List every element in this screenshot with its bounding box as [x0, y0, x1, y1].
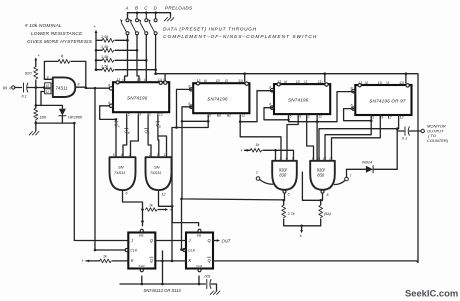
svg-text:11: 11: [46, 90, 50, 94]
svg-text:GIVES MORE HYSTERESIS: GIVES MORE HYSTERESIS: [27, 39, 93, 44]
svg-text:10: 10: [296, 80, 300, 84]
wire IC4 pin5 to gate U9: [325, 121, 371, 160]
svg-text:12: 12: [323, 156, 327, 160]
svg-text:6: 6: [288, 193, 290, 197]
switch A (preload): [127, 13, 129, 19]
svg-text:2: 2: [255, 171, 258, 175]
gate U6 SN74S11 (AND, zero detect A): [110, 157, 136, 190]
svg-text:C: C: [144, 6, 148, 11]
svg-text:2: 2: [389, 115, 392, 119]
svg-text:|3: |3: [144, 78, 147, 82]
wire feed from IC2 pin6 cascade to U8 node: [182, 121, 284, 200]
gate U7 SN74S11 (AND, zero detect B): [146, 157, 172, 190]
svg-text:74S11: 74S11: [114, 170, 125, 175]
svg-text:IN914: IN914: [362, 161, 372, 165]
svg-text:2.7k: 2.7k: [287, 212, 296, 216]
svg-text:13: 13: [164, 153, 168, 157]
svg-text:D: D: [159, 124, 161, 128]
svg-text:1.5k: 1.5k: [101, 44, 109, 49]
diode HP2800: [59, 109, 66, 116]
svg-text:8: 8: [327, 193, 329, 197]
wire switch A to IC1 pin 4: [125, 35, 128, 81]
svg-text:10: 10: [317, 156, 321, 160]
svg-text:2: 2: [279, 156, 282, 160]
svg-text:IN: IN: [3, 85, 8, 90]
flip-flop U11 (SN74S112) second: [186, 233, 213, 269]
svg-text:5: 5: [128, 113, 130, 117]
svg-text:SN: SN: [154, 165, 160, 170]
wire monitor vertical: [396, 129, 398, 170]
wire switch C to IC1 pin 3: [145, 35, 147, 81]
svg-text:9: 9: [299, 115, 301, 119]
wire U8 output node: [283, 194, 286, 201]
svg-text:COMPLEMENT–OF–NINES–COMPLEMENT: COMPLEMENT–OF–NINES–COMPLEMENT SWITCH: [163, 34, 317, 40]
IC U3 SN74196 (decade counter 2): [193, 83, 249, 113]
svg-text:11): 11): [399, 81, 404, 85]
svg-text:12: 12: [159, 113, 163, 117]
svg-text:180: 180: [40, 115, 47, 120]
capacitor 0.1 monitor coupling: [397, 130, 404, 132]
svg-text:*: *: [300, 235, 302, 241]
wire IC3 pin12 to gate U9: [316, 115, 318, 160]
svg-text:|4: |4: [204, 79, 207, 83]
flip-flop U10 (SN74S112) first: [128, 233, 155, 269]
svg-text:CLK: CLK: [188, 249, 196, 253]
svg-text:#: #: [61, 54, 64, 59]
svg-text:1.5k: 1.5k: [101, 34, 109, 39]
svg-text:SN74S112 OR S113: SN74S112 OR S113: [144, 288, 182, 293]
wire J-feed long vertical: [74, 123, 128, 240]
wire IC1 pin12 to gate U7: [158, 115, 167, 157]
svg-text:CLR: CLR: [196, 264, 203, 268]
wire switch B to IC1 pin 10: [137, 35, 139, 81]
svg-text:9: 9: [381, 115, 383, 119]
wire decoder common to supply: [284, 225, 321, 227]
wire FF2 Q to OUT: [213, 240, 217, 242]
svg-text:12: 12: [318, 115, 322, 119]
wire IC4 pin9 to gate U9: [332, 115, 381, 160]
svg-text:13: 13: [329, 156, 333, 160]
svg-text:4: 4: [121, 153, 123, 157]
wire FF1 Qbar to FF2 K: [155, 260, 186, 262]
node diode feed: [35, 88, 37, 106]
svg-text:|4: |4: [284, 80, 287, 84]
ground for preload bus: [164, 18, 174, 21]
terminal scope A: [256, 177, 260, 181]
switch B (preload): [136, 13, 138, 19]
wire FF2 CLK feed: [182, 199, 185, 250]
svg-text:12: 12: [162, 193, 166, 197]
svg-text:LOWER RESISTANCE: LOWER RESISTANCE: [31, 31, 83, 36]
svg-text:|3: |3: [304, 80, 307, 84]
svg-text:DATA (PRESET) INPUT THROUGH: DATA (PRESET) INPUT THROUGH: [163, 27, 257, 33]
terminal scope B: [345, 177, 349, 181]
wire IC3 pin6 loop: [264, 108, 289, 120]
svg-text:B: B: [135, 6, 138, 11]
svg-text:+: +: [240, 148, 243, 153]
svg-text:OUT: OUT: [222, 238, 231, 243]
svg-text:830: 830: [279, 173, 287, 178]
svg-text:0: 0: [9, 86, 11, 90]
IC U5 SN74196 OR 97 (decade counter 4): [355, 85, 411, 115]
svg-text:+: +: [38, 53, 41, 58]
svg-text:5: 5: [209, 114, 211, 118]
svg-text:1.5k: 1.5k: [101, 64, 109, 69]
wire: preload common bus to ground: [128, 13, 171, 19]
svg-text:D: D: [154, 6, 158, 11]
gate U8 930/830 (NAND decode A): [272, 161, 297, 190]
wire IC3 pin2 to gate U9: [307, 115, 314, 160]
stub bus to IC4 pin 1: [405, 74, 407, 83]
wire IC4 pin12 monitor node: [319, 115, 399, 160]
svg-text:10: 10: [378, 81, 382, 85]
svg-text:9: 9: [219, 114, 221, 118]
terminal monitor output: [421, 129, 424, 132]
stub bus to IC2 pin 1: [244, 74, 246, 82]
svg-text:SN74196: SN74196: [127, 96, 148, 101]
svg-text:1: 1: [157, 153, 159, 157]
wire IC1 pin9 to gate U6: [131, 115, 139, 157]
wire: top bus to right border (count line): [156, 74, 418, 263]
svg-text:SN74196: SN74196: [207, 97, 228, 102]
wire IC4 pin6 loop: [344, 109, 372, 121]
svg-text:2: 2: [148, 153, 151, 157]
svg-text:1k: 1k: [103, 255, 107, 259]
svg-text:2: 2: [228, 114, 231, 118]
svg-text:11): 11): [238, 79, 243, 83]
svg-text:820: 820: [25, 71, 32, 76]
svg-text:9: 9: [312, 156, 314, 160]
wire clear line: [120, 283, 205, 285]
wire FF1 Q to FF2 J: [155, 240, 186, 242]
svg-text:|4: |4: [122, 78, 125, 82]
svg-text:0.1: 0.1: [22, 95, 27, 99]
svg-text:7: 7: [350, 174, 352, 178]
svg-text:9: 9: [139, 113, 141, 117]
wire IC2 pin5 branch to FF region: [172, 121, 208, 261]
wire IC2 pin8 from IC1 cascade: [177, 89, 192, 127]
ground for .001: [210, 291, 220, 294]
ground below 180: [29, 132, 39, 135]
svg-text:.001: .001: [204, 275, 211, 279]
svg-text:|3: |3: [225, 79, 228, 83]
svg-text:10: 10: [216, 79, 220, 83]
wire switch D to count bus: [155, 35, 157, 74]
node input junction: [35, 86, 38, 89]
svg-text:+: +: [94, 24, 97, 29]
svg-text:5: 5: [292, 156, 294, 160]
svg-text:12: 12: [400, 115, 404, 119]
wire gate9 input: [44, 78, 52, 80]
wire clear feed drop: [162, 251, 164, 284]
svg-text:CLK: CLK: [130, 249, 138, 253]
svg-text:B: B: [128, 131, 130, 135]
svg-text:(6a): (6a): [324, 212, 331, 216]
svg-text:830: 830: [317, 173, 325, 178]
wire IC3 pin5-12 link: [289, 121, 318, 123]
switch C (preload): [145, 13, 147, 19]
svg-text:PRELOADS: PRELOADS: [165, 6, 193, 11]
switch D (preload): [155, 13, 157, 19]
svg-text:5: 5: [290, 115, 292, 119]
svg-text:SN: SN: [118, 165, 124, 170]
svg-text:A: A: [117, 124, 120, 128]
svg-text:PR: PR: [139, 234, 144, 238]
wire diode return: [36, 122, 75, 124]
svg-text:11): 11): [318, 80, 323, 84]
svg-text:SeekIC.com: SeekIC.com: [405, 287, 458, 298]
svg-text:COUNTER): COUNTER): [427, 138, 449, 143]
wire U7 output to FF2 preset: [159, 190, 173, 206]
gate U9 930/830 (NAND decode B): [310, 161, 335, 190]
wire U9 output node: [321, 194, 323, 201]
stub bus to IC1 pin 1: [164, 74, 166, 81]
IC U4 SN74196 (decade counter 3): [274, 84, 330, 114]
svg-text:SN74196 OR 97: SN74196 OR 97: [369, 99, 406, 104]
svg-text:10: 10: [137, 78, 141, 82]
stub bus to IC3 pin 1: [324, 74, 326, 82]
svg-text:5: 5: [372, 115, 374, 119]
svg-text:74S11: 74S11: [56, 85, 69, 90]
wire IC3 pin9 to gate U8: [287, 115, 298, 160]
svg-text:74S11: 74S11: [150, 170, 161, 175]
svg-text:SN74196: SN74196: [288, 98, 309, 103]
svg-text:1k: 1k: [149, 204, 153, 208]
svg-text:CLR: CLR: [139, 264, 146, 268]
svg-text:1.5k: 1.5k: [101, 54, 109, 59]
svg-text:8: 8: [78, 82, 80, 86]
svg-text:12: 12: [241, 114, 245, 118]
svg-text:|3: |3: [386, 81, 389, 85]
svg-text:|4: |4: [365, 81, 368, 85]
svg-text:1: 1: [274, 156, 276, 160]
wire IC4 pin8 from IC3 pin12: [317, 92, 354, 122]
svg-text:0.1: 0.1: [402, 137, 407, 141]
svg-text:K: K: [189, 258, 192, 263]
wire IC2 pin12 junction: [239, 115, 241, 121]
svg-text:3: 3: [129, 153, 131, 157]
svg-text:5: 5: [113, 153, 115, 157]
wire clock drop to flip-flops: [95, 88, 124, 250]
svg-text:K: K: [131, 258, 134, 263]
wire U1 output node: [75, 87, 111, 88]
wire IC1 pin6 loop to gate: [100, 106, 116, 120]
svg-text:HP2800: HP2800: [68, 115, 83, 120]
IC U2 SN74196 (decade counter 1): [113, 82, 169, 112]
wire gate11 input stub: [41, 92, 45, 106]
wire FF2 Qbar feedback to count bus: [213, 261, 418, 262]
wire U6 output to FF1 preset: [123, 190, 143, 226]
wire IC2 pin12 to gate U8 input: [240, 122, 281, 160]
capacitor 0.1 input coupling: [23, 83, 25, 92]
svg-text:6: 6: [126, 192, 128, 196]
power rail + for 1.5k bank: [95, 33, 97, 70]
wire IC1 pin2 to gate U7: [148, 115, 151, 157]
svg-text:10: 10: [46, 84, 50, 88]
svg-text:PR: PR: [197, 234, 202, 238]
svg-text:# 10k NOMINAL: # 10k NOMINAL: [25, 23, 62, 28]
svg-text:4: 4: [285, 156, 287, 160]
svg-text:A: A: [125, 6, 129, 11]
wire IC1 pin5 to gate U6: [123, 115, 127, 157]
op-gate U1 74S11 (input Schmitt AND): [53, 77, 76, 97]
wire IC3 pin8 from IC2 pin12: [240, 91, 272, 122]
svg-text:+: +: [82, 259, 85, 264]
wire IC2 pin6 loop: [182, 107, 192, 122]
svg-text:1k: 1k: [256, 143, 260, 147]
